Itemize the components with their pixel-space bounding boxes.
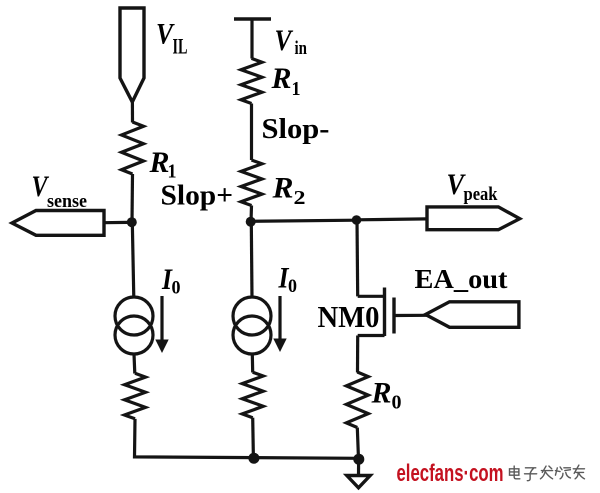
port Vpeak: [427, 207, 520, 230]
wire R2 to node B: [249, 206, 253, 223]
wire R1 to node A: [130, 174, 134, 222]
node C dot: [352, 215, 362, 225]
wire Vsense to node A: [104, 221, 131, 225]
svg-text:NM0: NM0: [318, 299, 380, 334]
port EA_out: [426, 302, 519, 328]
node B dot: [246, 217, 256, 227]
rail junction dot right: [353, 454, 364, 465]
svg-text:V: V: [275, 24, 295, 57]
wire VIL to R1: [131, 101, 134, 123]
svg-text:1: 1: [168, 161, 177, 183]
gate wire: [394, 314, 427, 317]
wire node A to current source: [132, 222, 134, 298]
wire node B to node C: [251, 220, 357, 221]
arrow I0 left: [160, 296, 163, 341]
svg-text:elecfans·com: elecfans·com: [397, 460, 504, 487]
current source middle: [233, 297, 271, 335]
svg-text:1: 1: [292, 78, 301, 100]
wire CS to resistor middle: [251, 354, 255, 373]
Vin supply bar: [234, 17, 271, 21]
port VIL: [120, 8, 144, 102]
wire CS to resistor left: [132, 354, 136, 374]
wire node B down to current source: [250, 222, 254, 298]
current source left: [115, 297, 153, 335]
svg-text:Slop+: Slop+: [161, 181, 234, 212]
ground stub: [357, 461, 360, 476]
svg-text:0: 0: [288, 276, 297, 297]
ground symbol: [347, 476, 370, 488]
svg-text:R: R: [149, 146, 170, 179]
svg-text:Slop-: Slop-: [262, 114, 330, 145]
resistor R1 left: [122, 122, 144, 174]
wire R1 to R2: [250, 104, 253, 161]
arrow I0 middle: [278, 296, 281, 339]
node A dot: [127, 217, 137, 227]
resistor R0: [346, 372, 368, 428]
wire NM0 source to R0: [356, 336, 359, 373]
wire Vin to R1 mid: [250, 19, 253, 59]
svg-text:IL: IL: [173, 34, 188, 59]
svg-text:sense: sense: [47, 191, 87, 212]
svg-text:0: 0: [172, 278, 181, 299]
wire to rail: [251, 418, 255, 459]
rail junction dot middle: [248, 453, 259, 464]
wire + bottom rail: [135, 419, 359, 459]
wire R0 to ground node: [357, 428, 358, 460]
svg-text:EA_out: EA_out: [415, 264, 508, 294]
resistor bottom left: [125, 373, 146, 419]
svg-text:0: 0: [392, 392, 402, 414]
svg-text:R: R: [271, 62, 292, 95]
port Vsense: [12, 211, 104, 236]
wire node C to Vpeak port: [357, 217, 428, 221]
svg-text:in: in: [295, 38, 308, 59]
svg-text:R: R: [371, 377, 392, 410]
svg-text:2: 2: [294, 187, 306, 209]
resistor R2: [241, 160, 262, 206]
svg-text:R: R: [271, 172, 293, 205]
transistor NM0: [358, 295, 385, 298]
resistor R1 middle: [241, 58, 262, 103]
wire node C to NM0 drain: [355, 220, 359, 296]
watermark chinese 电子发烧友: [510, 465, 585, 481]
svg-text:peak: peak: [464, 184, 498, 205]
resistor bottom middle: [242, 372, 263, 418]
